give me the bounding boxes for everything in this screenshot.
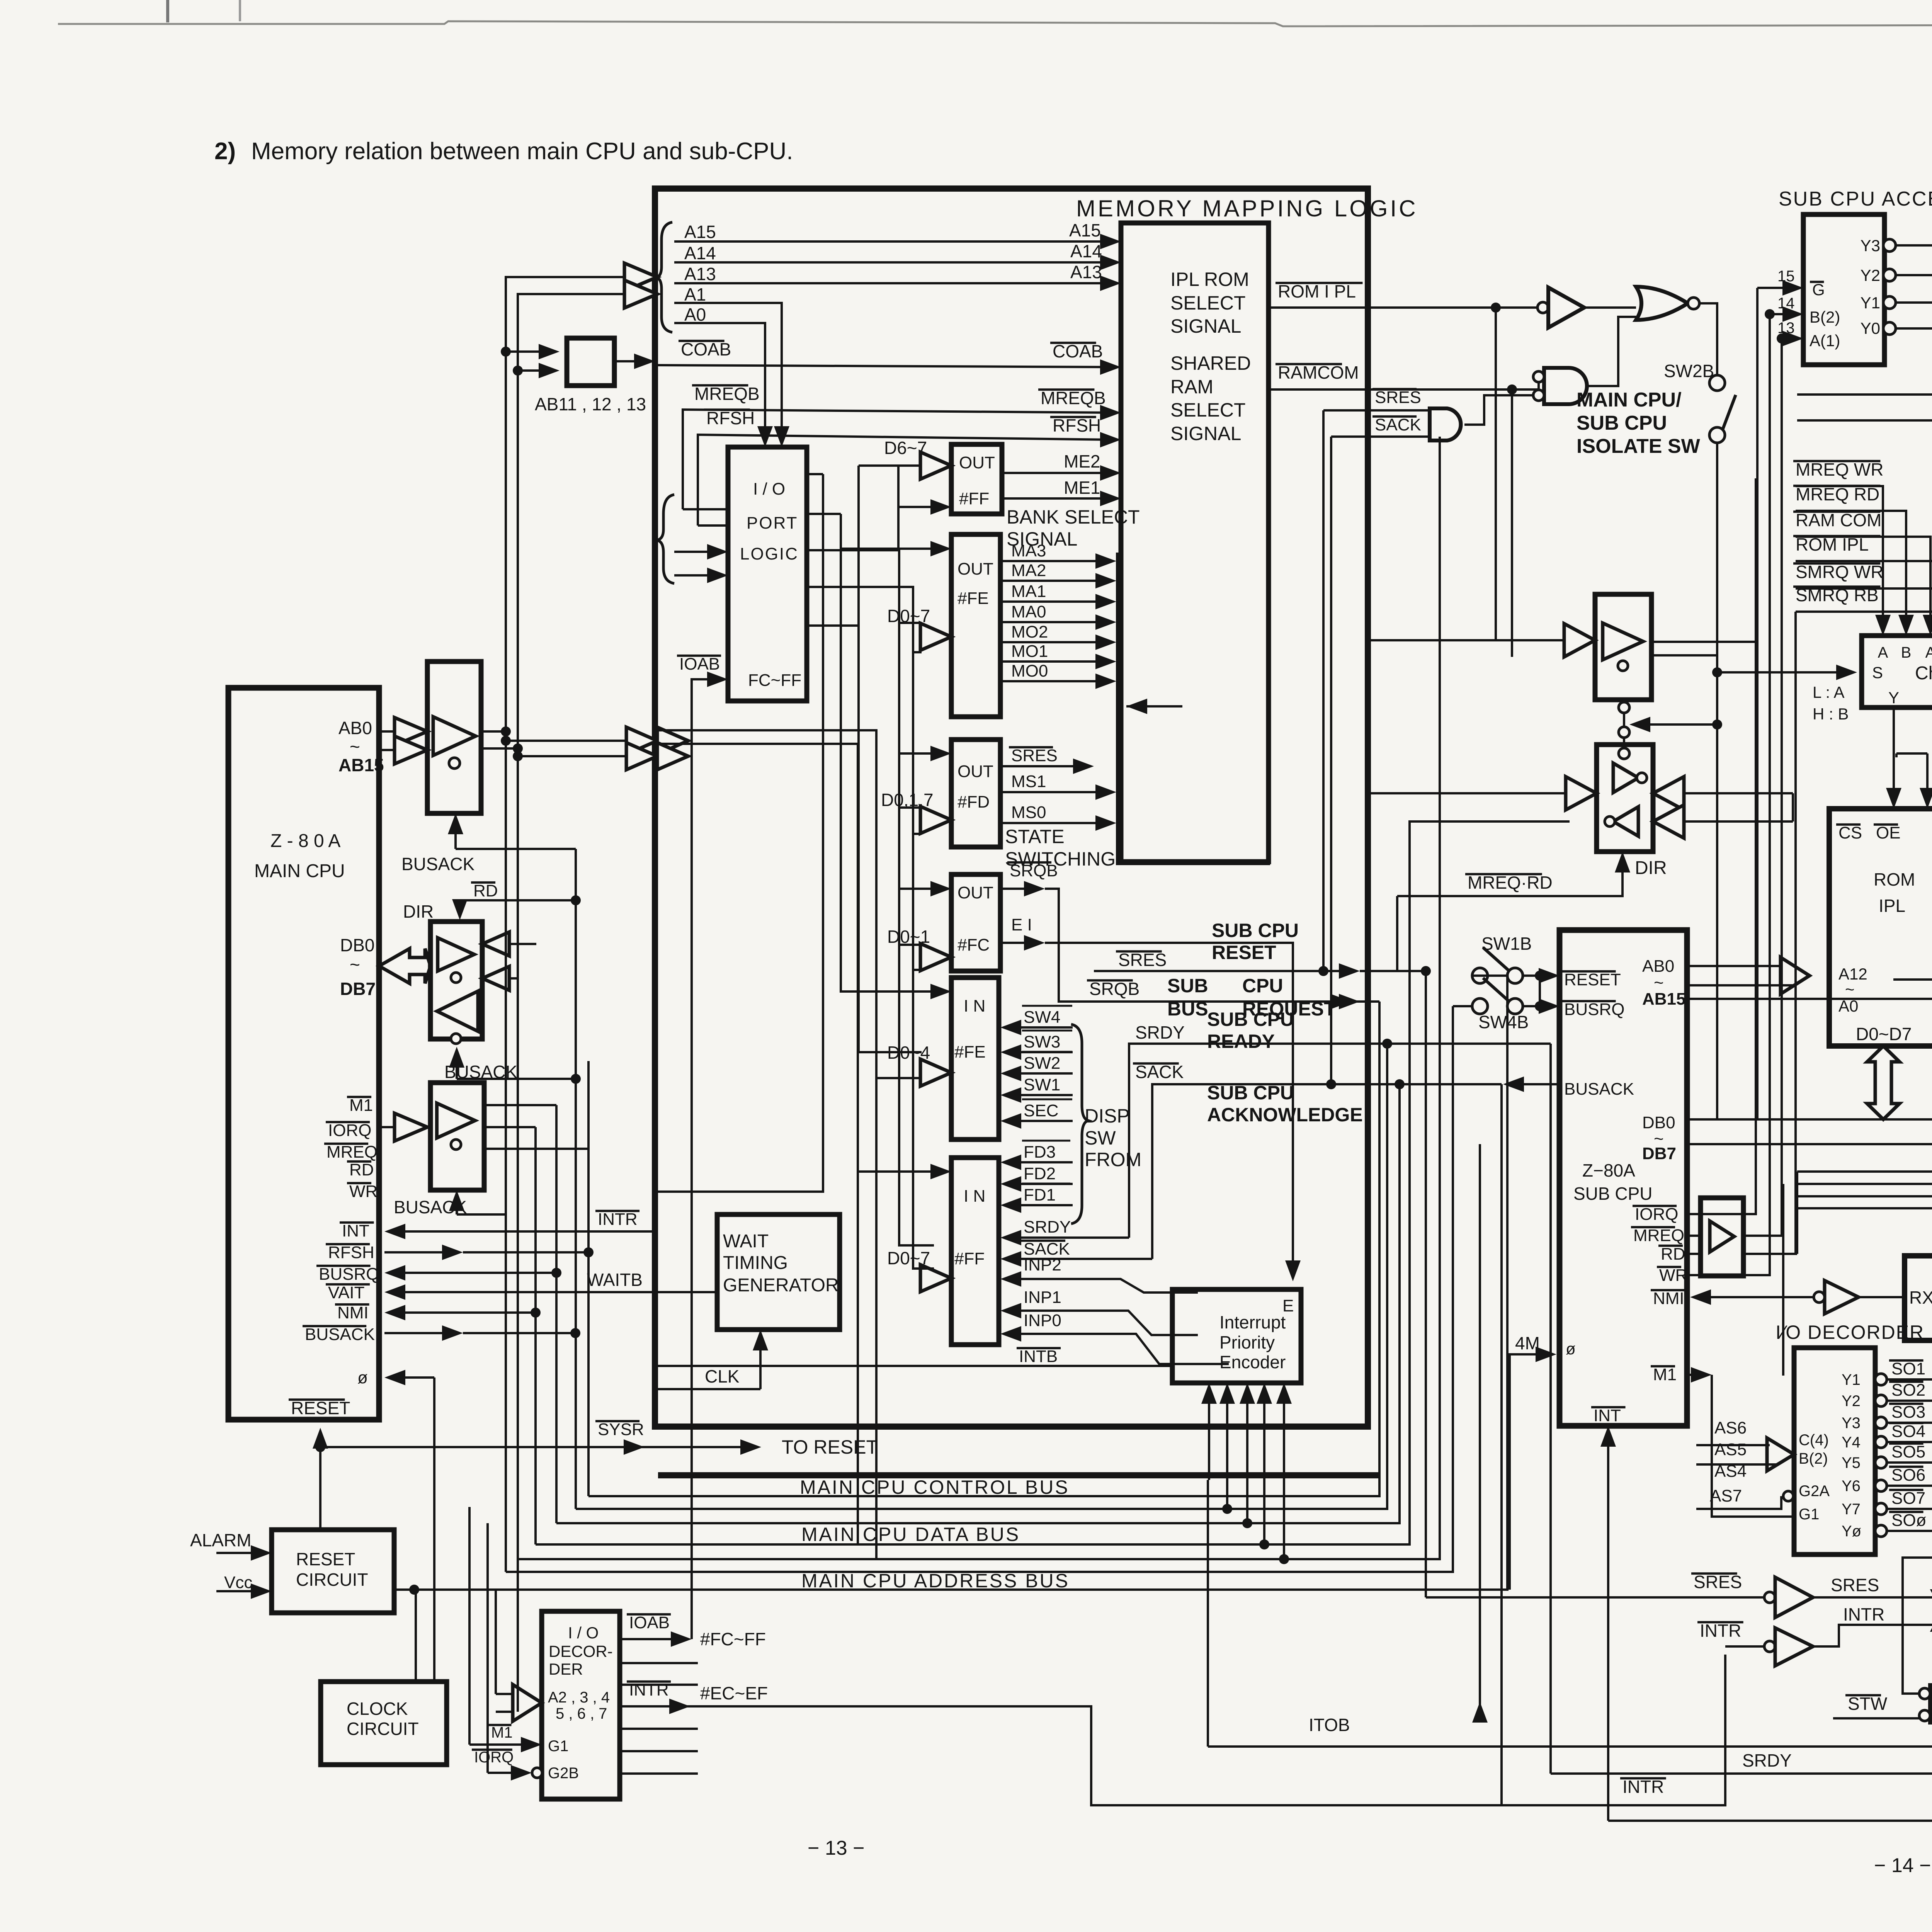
- svg-text:SRES: SRES: [1118, 950, 1167, 970]
- svg-text:BUSRQ: BUSRQ: [1564, 1000, 1624, 1019]
- svg-text:RESET: RESET: [291, 1398, 350, 1418]
- wire buffer1 out2: [1651, 641, 1757, 643]
- svg-text:AS5: AS5: [1714, 1440, 1747, 1459]
- svg-text:INT: INT: [1594, 1406, 1621, 1425]
- wire SRES into gate: [1323, 409, 1430, 412]
- svg-text:VAIT: VAIT: [328, 1283, 365, 1302]
- svg-text:A2 , 3 , 4: A2 , 3 , 4: [548, 1689, 610, 1706]
- svg-text:Y1: Y1: [1861, 294, 1880, 312]
- svg-text:BUSACK: BUSACK: [1564, 1080, 1634, 1099]
- svg-text:ALARM: ALARM: [190, 1530, 251, 1550]
- stub FE top input: [897, 507, 900, 549]
- wire sres verticals: [1322, 410, 1325, 971]
- wire AND out to NOR: [1587, 317, 1636, 386]
- svg-text:Chip Selector: Chip Selector: [1915, 663, 1932, 684]
- svg-text:ME1: ME1: [1064, 478, 1100, 498]
- open arrow into OUT#FC: [920, 944, 951, 971]
- svg-text:Z - 8 0 A: Z - 8 0 A: [270, 831, 340, 851]
- svg-text:SMRQ WR: SMRQ WR: [1796, 562, 1883, 582]
- wire input OUT#FD top: [899, 752, 943, 755]
- decoder1 input wires: [1757, 287, 1795, 289]
- svg-text:STW: STW: [1848, 1694, 1888, 1714]
- svg-text:MREQ WR: MREQ WR: [1796, 459, 1883, 480]
- svg-text:MREQ: MREQ: [327, 1143, 378, 1162]
- svg-text:I N: I N: [964, 1187, 985, 1206]
- wire bus request line: [1351, 1000, 1379, 1003]
- wire DB0 line: [1687, 1118, 1932, 1121]
- wire AND2 out: [1464, 395, 1533, 425]
- sub cpu access decoder box: [1803, 214, 1884, 365]
- svg-text:SIGNAL: SIGNAL: [1007, 528, 1077, 550]
- wire SO3 to 8255 cs: [1887, 1356, 1932, 1423]
- svg-text:FD3: FD3: [1024, 1143, 1056, 1162]
- svg-text:DB7: DB7: [1642, 1144, 1676, 1163]
- wire phi clock to cpu: [393, 1376, 434, 1379]
- wire INT to cpu: [393, 1230, 658, 1233]
- svg-text:#FD: #FD: [957, 793, 990, 811]
- svg-text:L : A: L : A: [1813, 683, 1845, 701]
- wire OE feed: [1896, 752, 1927, 755]
- interrupt priority encoder box: [1172, 1289, 1301, 1383]
- svg-text:Yø: Yø: [1842, 1523, 1861, 1540]
- svg-text:RD: RD: [473, 881, 498, 900]
- memory mapping logic container box: [655, 189, 1368, 1427]
- wire MREQ buf out: [1743, 583, 1782, 1236]
- svg-text:MEMORY MAPPING LOGIC: MEMORY MAPPING LOGIC: [1076, 196, 1418, 221]
- svg-text:PORT: PORT: [747, 514, 798, 532]
- svg-text:RESET: RESET: [1212, 942, 1276, 963]
- buffer enable arrow: [454, 821, 457, 849]
- svg-text:RAM: RAM: [1170, 376, 1213, 398]
- wire INTR out to EC-EF: [620, 1655, 1725, 1805]
- sub control buffer box: [1701, 1198, 1743, 1276]
- wire AB11 out: [614, 360, 647, 362]
- ROM IPL data arrow: [1867, 1046, 1900, 1119]
- svg-text:Vᴄᴄ: Vᴄᴄ: [224, 1573, 252, 1592]
- OUT #FD box: [951, 740, 1000, 847]
- svg-text:H : B: H : B: [1813, 705, 1849, 723]
- wire MREQB: [683, 410, 1113, 509]
- svg-text:MO0: MO0: [1011, 662, 1048, 680]
- wire input OUT#FC top: [899, 888, 943, 890]
- verticals from cpu to decoder: [468, 1507, 471, 1745]
- open arrow D6-7 into OUT#FF: [859, 464, 922, 467]
- wire MS0: [1000, 822, 1108, 824]
- wire EI out: [1000, 942, 1037, 944]
- wire SRQB out: [1000, 888, 1037, 890]
- svg-text:FC~FF: FC~FF: [748, 671, 801, 690]
- IN #FE box: [951, 978, 999, 1139]
- arrow A14: [1100, 255, 1121, 270]
- svg-text:SIGNAL: SIGNAL: [1170, 315, 1241, 337]
- svg-text:AS7: AS7: [1710, 1486, 1742, 1505]
- wire RFSH out: [384, 1251, 455, 1253]
- svg-text:G: G: [1812, 281, 1825, 299]
- svg-text:SACK: SACK: [1375, 415, 1421, 434]
- svg-text:SUB: SUB: [1167, 975, 1208, 997]
- svg-text:Y0: Y0: [1861, 319, 1880, 337]
- svg-text:SRES: SRES: [1375, 388, 1421, 407]
- svg-text:Y6: Y6: [1842, 1478, 1861, 1495]
- open arrow into right decoder: [1770, 1444, 1777, 1446]
- wire SRDY into FF: [1009, 1236, 1129, 1239]
- data buffer box: [430, 922, 482, 1039]
- wire INP0: [1009, 1334, 1229, 1364]
- wire AS inputs: [1696, 1444, 1770, 1446]
- svg-text:Y2: Y2: [1842, 1393, 1861, 1410]
- svg-text:BUSACK: BUSACK: [394, 1197, 467, 1217]
- wire WR sub: [1687, 503, 1770, 1275]
- wire busack left: [1511, 1083, 1560, 1085]
- svg-text:#FC: #FC: [957, 935, 990, 954]
- wire INP1: [1009, 1311, 1198, 1335]
- svg-text:G2B: G2B: [548, 1765, 579, 1782]
- wire AS7 G2A: [1696, 1496, 1781, 1509]
- svg-text:SRDY: SRDY: [1742, 1750, 1792, 1770]
- svg-text:A14: A14: [1070, 241, 1102, 261]
- wire SO7 to c-gdc: [1887, 1508, 1932, 1510]
- svg-text:SRQB: SRQB: [1089, 979, 1139, 999]
- svg-text:GENERATOR: GENERATOR: [723, 1275, 839, 1296]
- wire romipl junction drop: [1495, 308, 1497, 640]
- scan top fold line: [58, 21, 1932, 26]
- svg-text:Y2: Y2: [1861, 266, 1880, 284]
- wire SO5 to csp: [1887, 1461, 1932, 1464]
- ROM IPL box: [1829, 809, 1932, 1046]
- svg-text:SOø: SOø: [1891, 1511, 1926, 1530]
- wire WAITB inside: [658, 1291, 717, 1293]
- svg-text:MREQB: MREQB: [1041, 388, 1106, 408]
- svg-text:M1: M1: [491, 1724, 513, 1741]
- svg-text:ROM I PL: ROM I PL: [1278, 281, 1356, 301]
- wire DB7 line: [1687, 1143, 1932, 1145]
- svg-text:#FE: #FE: [954, 1043, 986, 1061]
- svg-text:WR: WR: [1659, 1266, 1687, 1285]
- svg-text:MO2: MO2: [1011, 622, 1048, 641]
- svg-text:NMI: NMI: [337, 1303, 369, 1322]
- svg-text:SW1B: SW1B: [1481, 934, 1532, 954]
- arrow A15: [1100, 234, 1121, 249]
- svg-text:A: A: [1925, 644, 1932, 661]
- svg-text:Priority: Priority: [1219, 1332, 1275, 1352]
- svg-text:Y1: Y1: [1842, 1371, 1861, 1388]
- svg-text:Encoder: Encoder: [1219, 1352, 1286, 1372]
- port logic output 1: [807, 473, 823, 475]
- chip selector box: [1862, 636, 1932, 707]
- svg-text:Y: Y: [1888, 689, 1899, 707]
- svg-text:READY: READY: [1207, 1031, 1275, 1052]
- control buffer outputs: [484, 1104, 556, 1106]
- stub FC arrow feed b: [913, 969, 922, 971]
- wire nand top input: [1903, 1687, 1919, 1694]
- wire srdy drop: [1549, 1044, 1552, 1774]
- open arrow control cpu to buffer: [379, 1126, 398, 1128]
- port logic output 2: [807, 513, 841, 515]
- svg-text:A13: A13: [684, 264, 716, 284]
- wire MS1: [1000, 791, 1108, 793]
- circle chain: [1619, 702, 1629, 713]
- wire ME2: [1002, 472, 1113, 474]
- wire IOAB out: [620, 1638, 684, 1640]
- svg-text:MREQ·RD: MREQ·RD: [1468, 872, 1553, 893]
- svg-text:OE: OE: [1876, 823, 1901, 842]
- wire RFSH into port logic: [698, 524, 728, 527]
- svg-text:SUB CPU: SUB CPU: [1212, 920, 1299, 941]
- svg-text:COAB: COAB: [681, 339, 731, 359]
- svg-text:DER: DER: [549, 1660, 583, 1678]
- svg-text:MAIN CPU: MAIN CPU: [254, 861, 345, 881]
- wire SACK into gate: [1331, 435, 1430, 438]
- wire STW: [1833, 1717, 1919, 1719]
- wire A14: [674, 261, 1113, 264]
- svg-text:SO6: SO6: [1891, 1466, 1925, 1485]
- svg-text:E I: E I: [1011, 915, 1032, 934]
- wire INT bottom line: [1608, 1820, 1932, 1822]
- svg-text:FD1: FD1: [1024, 1185, 1056, 1204]
- bus line 7 address: [469, 976, 1507, 1590]
- brace port logic inputs: [657, 495, 674, 583]
- svg-text:ACKNOWLEDGE: ACKNOWLEDGE: [1207, 1104, 1363, 1126]
- wire MREQB into port logic: [683, 508, 728, 510]
- wire intr to nor: [1813, 1625, 1932, 1646]
- open arrow into IN#FE: [920, 1059, 951, 1086]
- wire input IN#FF top: [859, 1170, 943, 1173]
- svg-text:SW3: SW3: [1024, 1032, 1060, 1051]
- svg-text:INTB: INTB: [1019, 1347, 1058, 1366]
- chip selector outputs: [1893, 707, 1895, 801]
- svg-text:OUT: OUT: [957, 560, 993, 578]
- svg-text:FD2: FD2: [1024, 1164, 1056, 1183]
- wire SRES out: [1000, 765, 1086, 767]
- svg-text:SO7: SO7: [1891, 1489, 1925, 1508]
- svg-text:SUB CPU: SUB CPU: [1207, 1082, 1294, 1104]
- wire into AB11 box 1: [506, 350, 544, 353]
- svg-text:OUT: OUT: [959, 453, 995, 472]
- svg-text:INT: INT: [342, 1221, 369, 1240]
- svg-text:ITOB: ITOB: [1309, 1715, 1350, 1735]
- control buffer enable: [456, 1198, 458, 1214]
- svg-text:A: A: [1878, 644, 1888, 661]
- svg-text:INP0: INP0: [1024, 1311, 1061, 1330]
- wire M1 sub: [1687, 1374, 1704, 1376]
- svg-text:5 , 6 , 7: 5 , 6 , 7: [556, 1705, 607, 1722]
- svg-text:SW1: SW1: [1024, 1075, 1060, 1094]
- Z-80A main CPU box: [228, 688, 379, 1420]
- Z-80A sub CPU box: [1560, 930, 1687, 1426]
- svg-text:AB15: AB15: [338, 755, 384, 775]
- svg-text:#FE: #FE: [957, 589, 989, 608]
- bus line 5: [518, 437, 1440, 1559]
- svg-text:CS: CS: [1838, 823, 1862, 842]
- svg-text:#FC~FF: #FC~FF: [700, 1629, 766, 1649]
- svg-text:B: B: [1901, 644, 1912, 661]
- svg-text:A13: A13: [1070, 262, 1102, 282]
- svg-text:Y3: Y3: [1842, 1415, 1861, 1432]
- svg-text:M1: M1: [349, 1096, 373, 1115]
- svg-text:INTR: INTR: [1622, 1777, 1664, 1797]
- extra arrow into bank bus: [1126, 705, 1182, 707]
- svg-text:OUT: OUT: [957, 883, 993, 902]
- svg-text:#EC~EF: #EC~EF: [700, 1683, 768, 1703]
- wire IORQ sub: [1687, 478, 1756, 1214]
- sub data bus band: [1797, 1170, 1932, 1173]
- wire buffer2 right vert: [1792, 793, 1794, 821]
- open arrow into mid buffer2 left: [1368, 792, 1570, 794]
- svg-text:INTR: INTR: [1700, 1621, 1741, 1641]
- IN #FF box: [951, 1158, 999, 1345]
- svg-text:SYSR: SYSR: [598, 1420, 644, 1439]
- svg-text:Y5: Y5: [1842, 1454, 1861, 1471]
- svg-text:RAMCOM: RAMCOM: [1278, 362, 1359, 383]
- svg-text:BUSACK: BUSACK: [401, 854, 474, 874]
- svg-text:CLOCK: CLOCK: [347, 1699, 408, 1719]
- svg-text:CLK: CLK: [705, 1366, 740, 1386]
- clock circuit box: [321, 1682, 447, 1765]
- left bus bend verticals: [587, 1061, 590, 1496]
- svg-text:LOGIC: LOGIC: [740, 544, 799, 563]
- NAND gate bottom: [1930, 1685, 1932, 1723]
- svg-text:AS6: AS6: [1714, 1418, 1747, 1437]
- svg-text:MO1: MO1: [1011, 642, 1048, 661]
- svg-text:S: S: [1872, 663, 1883, 682]
- wire 4M: [1510, 1354, 1548, 1590]
- wire RD to DIR: [460, 900, 576, 912]
- NOR gate isolate: [1636, 287, 1688, 320]
- wire RAMCOM: [1269, 383, 1539, 389]
- svg-text:MA2: MA2: [1011, 561, 1046, 580]
- stub to FF second input: [897, 466, 900, 507]
- svg-text:SO4: SO4: [1891, 1422, 1925, 1441]
- svg-text:D0~D7: D0~D7: [1856, 1024, 1912, 1044]
- svg-text:SRES: SRES: [1694, 1572, 1742, 1592]
- wire input OUT#FE top: [841, 548, 943, 550]
- svg-text:− 13 −: − 13 −: [808, 1837, 864, 1859]
- svg-text:C(4): C(4): [1799, 1432, 1829, 1449]
- wire IOAB into port logic: [692, 679, 719, 1639]
- stub FD arrow feed b: [913, 833, 922, 835]
- wire ramcom junction drop: [1511, 389, 1513, 657]
- wire sack line: [1152, 1084, 1331, 1259]
- wire SRDY bottom: [1551, 1348, 1932, 1774]
- wires MA3-MO0 outputs of OUT#FE: [1000, 560, 1108, 562]
- bidirectional arrow DB0-DB7: [379, 949, 430, 983]
- OUT #FC box: [951, 874, 1000, 971]
- wire SO1 to 8251 cs: [1887, 1349, 1932, 1379]
- svg-text:SHARED: SHARED: [1170, 352, 1251, 374]
- wire ALARM: [216, 1552, 264, 1554]
- channel vertical D6-7: [859, 466, 922, 1052]
- decoder left outputs unlabeled: [620, 1662, 698, 1664]
- svg-text:SW4: SW4: [1024, 1008, 1060, 1027]
- svg-text:SUB CPU: SUB CPU: [1573, 1184, 1652, 1204]
- OUT #FE box: [951, 534, 1000, 717]
- svg-text:#FF: #FF: [959, 489, 989, 508]
- svg-text:WAITB: WAITB: [587, 1270, 643, 1290]
- svg-text:IORQ: IORQ: [474, 1749, 514, 1766]
- wire A15: [674, 240, 1113, 243]
- svg-text:M1: M1: [1653, 1365, 1677, 1384]
- OUT #FF box: [951, 444, 1002, 514]
- svg-text:G1: G1: [548, 1738, 568, 1755]
- svg-text:SMRQ RB: SMRQ RB: [1796, 585, 1879, 605]
- svg-text:SW: SW: [1085, 1127, 1116, 1149]
- svg-text:SEC: SEC: [1024, 1101, 1058, 1120]
- wire A13: [674, 282, 1113, 284]
- svg-text:SRDY: SRDY: [1135, 1022, 1185, 1043]
- svg-text:TIMING: TIMING: [723, 1253, 788, 1273]
- wire srdy line: [1129, 1044, 1551, 1238]
- bus line 3: [556, 1084, 1400, 1523]
- svg-text:BUSACK: BUSACK: [305, 1325, 375, 1344]
- wire long vertical int: [1479, 1144, 1481, 1708]
- bus line 6: [506, 1006, 1453, 1572]
- wire Y1 down to chip sel: [1896, 303, 1932, 628]
- wire NMI to sub: [1698, 1296, 1814, 1298]
- svg-text:SO5: SO5: [1891, 1442, 1925, 1461]
- svg-text:WR: WR: [349, 1182, 378, 1201]
- svg-text:AB11 , 12 , 13: AB11 , 12 , 13: [535, 394, 646, 414]
- svg-text:A1: A1: [684, 284, 706, 304]
- junction dots on verticals: [571, 895, 581, 905]
- svg-text:2): 2): [214, 138, 236, 165]
- wire MREQ sub: [1687, 1235, 1701, 1237]
- wire SO4 to ls244 g: [1887, 1319, 1932, 1442]
- wire NMI to cpu: [393, 1311, 536, 1314]
- wire reset out right: [394, 1588, 1507, 1591]
- I/O port logic box: [728, 447, 807, 701]
- svg-text:~: ~: [350, 954, 360, 975]
- svg-text:SRQB: SRQB: [1010, 861, 1058, 880]
- wire itob up to encoder: [1207, 1480, 1209, 1747]
- open arrow into IN#FF: [920, 1265, 951, 1292]
- svg-text:SW2B: SW2B: [1664, 361, 1714, 381]
- wire sub AB15 line: [1687, 998, 1932, 1000]
- svg-text:STATE: STATE: [1005, 826, 1065, 847]
- svg-text:DB7: DB7: [340, 979, 376, 999]
- svg-text:SUB CPU ACCESS: SUB CPU ACCESS: [1779, 188, 1932, 210]
- svg-text:RFSH: RFSH: [706, 408, 755, 428]
- svg-text:SO1: SO1: [1891, 1359, 1925, 1378]
- IPL ROM select block: [1121, 223, 1269, 862]
- svg-text:TO RESET: TO RESET: [782, 1436, 878, 1458]
- svg-text:B(2): B(2): [1810, 308, 1840, 326]
- wire Y0 down to chip sel: [1896, 328, 1932, 628]
- svg-text:INP1: INP1: [1024, 1288, 1061, 1307]
- wire second input OUT#FF: [898, 506, 943, 508]
- svg-text:ø: ø: [1566, 1340, 1576, 1358]
- 8251AC box: [1905, 1256, 1932, 1340]
- wire buffer out to vertical 1: [481, 730, 506, 733]
- svg-text:NMI: NMI: [1653, 1289, 1684, 1308]
- svg-text:INTR: INTR: [629, 1680, 669, 1699]
- svg-text:− 14 −: − 14 −: [1874, 1854, 1931, 1877]
- wire BUSRQ to cpu: [393, 1272, 556, 1274]
- wire address feed 1: [506, 277, 630, 1572]
- AB11 12 13 driver box: [567, 338, 614, 386]
- svg-text:RXRDY: RXRDY: [1909, 1287, 1932, 1308]
- svg-text:SELECT: SELECT: [1170, 399, 1246, 421]
- svg-text:WAIT: WAIT: [723, 1231, 769, 1252]
- wire Vcc: [216, 1590, 264, 1592]
- svg-text:MREQ RD: MREQ RD: [1796, 484, 1879, 504]
- wire sub cpu reset line: [1094, 970, 1352, 972]
- wire INTB: [658, 1365, 1172, 1367]
- wire A1 to IO port logic: [674, 303, 782, 440]
- svg-text:Y7: Y7: [1842, 1501, 1861, 1518]
- svg-text:IORQ: IORQ: [328, 1121, 371, 1140]
- wire sub AB0 line: [1687, 965, 1793, 967]
- wire address feed 2: [518, 294, 630, 1559]
